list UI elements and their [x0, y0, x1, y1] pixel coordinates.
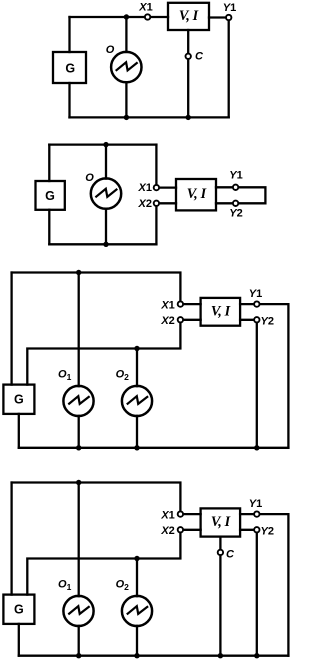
wire: O1 top lead circuit 3	[78, 273, 80, 387]
svg-text:G: G	[65, 61, 75, 75]
svg-text:G: G	[14, 603, 24, 617]
wire: top rail circuit 2	[49, 143, 156, 145]
terminal X2 circuit 3	[178, 317, 183, 322]
terminal X1 circuit 4	[178, 511, 183, 516]
svg-text:X1: X1	[138, 182, 152, 194]
wire: O1 top lead circuit 4	[78, 483, 80, 597]
terminal Y1 circuit 2	[233, 185, 238, 190]
junction: middle rail to O2 circuit 3	[134, 346, 139, 351]
junction: middle rail to O2 circuit 4	[134, 556, 139, 561]
svg-text:X2: X2	[160, 315, 174, 327]
svg-text:O1: O1	[58, 369, 72, 382]
wire: meter box to Y2 circuit 3	[240, 319, 257, 321]
oscillator O2 circle circuit 4	[122, 596, 152, 626]
svg-text:X1: X1	[160, 299, 174, 311]
wire: meter box C lead down circuit 1	[187, 30, 189, 117]
svg-text:X1: X1	[138, 2, 152, 14]
wire: X1 to meter box circuit 2	[156, 186, 176, 188]
svg-text:Y2: Y2	[261, 316, 274, 328]
wire: left side down to G circuit 4	[10, 483, 12, 595]
svg-text:V, I: V, I	[179, 8, 199, 24]
junction: top rail to O1 circuit 3	[76, 270, 81, 275]
terminal C circuit 4	[218, 550, 223, 555]
meter box U4 "V, I" circuit 4	[201, 508, 241, 536]
junction: top rail to O1 circuit 4	[76, 480, 81, 485]
terminal X2 circuit 2	[154, 201, 159, 206]
terminal Y1 circuit 1	[226, 15, 231, 20]
generator G box circuit 4	[3, 595, 34, 624]
junction: bottom rail to O1 circuit 4	[76, 653, 81, 658]
oscillator O sawtooth symbol circuit 1	[116, 62, 138, 71]
wire: generator G bottom lead circuit 1	[68, 83, 70, 117]
svg-text:O2: O2	[116, 369, 130, 382]
wire: generator G top lead circuit 1	[68, 17, 70, 52]
terminal X1 circuit 1	[145, 14, 150, 19]
svg-text:O: O	[85, 172, 94, 184]
wire: X1 to meter box circuit 3	[180, 303, 200, 305]
svg-text:C: C	[195, 51, 204, 63]
oscillator O circle circuit 1	[111, 52, 141, 82]
junction: top rail to O circuit 2	[103, 142, 108, 147]
wire: top rail and corner down to X1 circuit 4	[12, 483, 181, 515]
oscillator O sawtooth symbol circuit 2	[95, 189, 117, 198]
meter box U3 "V, I" circuit 3	[201, 298, 241, 326]
wire: top rail and corner down to X1 circuit 3	[12, 273, 181, 305]
wire: Y1 right and down to bottom rail circuit 3	[257, 304, 289, 448]
svg-text:O2: O2	[116, 579, 130, 592]
wire: meter box C lead down to bottom rail circuit 4	[219, 537, 221, 656]
wire: bottom rail circuit 2	[49, 243, 156, 245]
wire: O1 bottom lead circuit 3	[78, 416, 80, 448]
wire: oscillator O bottom lead circuit 1	[125, 82, 127, 117]
wire: bottom rail circuit 3	[19, 447, 289, 449]
wire: G bottom to bottom rail circuit 4	[18, 624, 20, 656]
junction: bottom rail to O circuit 2	[103, 242, 108, 247]
terminal Y2 circuit 4	[254, 527, 259, 532]
wire: left side down to G circuit 3	[10, 273, 12, 385]
terminal C circuit 1	[186, 54, 191, 59]
wire: O2 top lead circuit 3	[136, 349, 138, 387]
oscillator O circle circuit 2	[91, 178, 121, 208]
svg-text:Y2: Y2	[229, 208, 242, 220]
wire: meter box to Y1 circuit 3	[240, 303, 257, 305]
junction: bottom rail to Y2 circuit 3	[254, 445, 259, 450]
generator G box circuit 1	[53, 52, 86, 83]
svg-text:V, I: V, I	[211, 304, 231, 320]
oscillator O2 sawtooth symbol circuit 4	[127, 606, 148, 614]
wire: Y1 right and down to bottom rail circuit 4	[257, 514, 289, 656]
terminal Y1 circuit 3	[254, 301, 259, 306]
wire: bottom rail circuit 1	[70, 116, 229, 118]
junction: top rail to O circuit 1	[124, 14, 129, 19]
wire: G bottom to bottom rail circuit 2	[48, 210, 50, 245]
wire: oscillator O bottom lead circuit 2	[105, 209, 107, 245]
wire: top rail circuit 1	[70, 16, 148, 18]
svg-text:Y2: Y2	[261, 526, 274, 538]
wire: shorting loop Y1 to Y2 circuit 2	[236, 187, 266, 203]
terminal X1 circuit 3	[178, 301, 183, 306]
oscillator O1 sawtooth symbol circuit 3	[68, 396, 89, 404]
svg-text:G: G	[45, 189, 55, 203]
wire: left side down to G circuit 2	[48, 145, 50, 181]
svg-text:Y1: Y1	[223, 2, 236, 14]
wire: Y2 down to bottom rail circuit 3	[256, 320, 258, 448]
junction: bottom rail to O1 circuit 3	[76, 445, 81, 450]
svg-text:G: G	[14, 393, 24, 407]
oscillator O2 circle circuit 3	[122, 386, 152, 416]
wire: meter box to Y2 circuit 2	[216, 202, 236, 204]
wire: bottom rail circuit 4	[19, 655, 289, 657]
wire: O1 bottom lead circuit 4	[78, 626, 80, 656]
wire: X2 to meter box circuit 3	[180, 319, 200, 321]
junction: bottom rail to C lead circuit 1	[186, 115, 191, 120]
wire: meter box to Y1 circuit 4	[240, 513, 257, 515]
svg-text:X1: X1	[160, 509, 174, 521]
wire: middle rail from X2 to G top circuit 3	[27, 320, 180, 385]
generator G box circuit 3	[3, 385, 34, 414]
meter box U2 "V, I" circuit 2	[176, 179, 216, 210]
junction: bottom rail to O2 circuit 3	[134, 445, 139, 450]
junction: bottom rail to Y2 circuit 4	[254, 653, 259, 658]
junction: bottom rail to O2 circuit 4	[134, 653, 139, 658]
wire: O2 bottom lead circuit 3	[136, 416, 138, 448]
junction: bottom rail to C lead circuit 4	[218, 653, 223, 658]
terminal Y2 circuit 2	[233, 201, 238, 206]
wire: X2 down to bottom rail circuit 2	[155, 203, 157, 244]
terminal X1 circuit 2	[154, 185, 159, 190]
oscillator O1 circle circuit 4	[63, 596, 93, 626]
wire: meter box to Y1 circuit 2	[216, 186, 236, 188]
wire: X1 to meter box circuit 4	[180, 513, 200, 515]
terminal Y1 circuit 4	[254, 511, 259, 516]
svg-text:V, I: V, I	[187, 186, 207, 202]
svg-text:C: C	[226, 549, 235, 561]
wire: meter box to Y1 circuit 1	[209, 16, 229, 18]
oscillator O2 sawtooth symbol circuit 3	[127, 396, 148, 404]
svg-text:Y1: Y1	[249, 288, 262, 300]
terminal Y2 circuit 3	[254, 317, 259, 322]
wire: X1 to meter box circuit 1	[148, 16, 168, 18]
wire: O2 bottom lead circuit 4	[136, 626, 138, 656]
wire: oscillator O top lead circuit 2	[105, 145, 107, 179]
svg-text:O: O	[106, 44, 115, 56]
generator G box circuit 2	[36, 181, 65, 210]
svg-text:V, I: V, I	[211, 514, 231, 530]
svg-text:Y1: Y1	[229, 170, 242, 182]
wire: Y2 down to bottom rail circuit 4	[256, 530, 258, 656]
wire: oscillator O top lead circuit 1	[125, 17, 127, 52]
wire: G bottom to bottom rail circuit 3	[18, 414, 20, 448]
oscillator O1 circle circuit 3	[63, 386, 93, 416]
svg-text:X2: X2	[160, 525, 174, 537]
junction: bottom rail to O circuit 1	[124, 115, 129, 120]
oscillator O1 sawtooth symbol circuit 4	[68, 606, 89, 614]
wire: middle rail from X2 to G top circuit 4	[27, 530, 180, 595]
svg-text:Y1: Y1	[249, 498, 262, 510]
wire: X2 to meter box circuit 4	[180, 529, 200, 531]
wire: meter box to Y2 circuit 4	[240, 529, 257, 531]
meter box U1 "V, I" circuit 1	[168, 3, 209, 30]
svg-text:X2: X2	[138, 198, 152, 210]
wire: O2 top lead circuit 4	[136, 559, 138, 597]
svg-text:O1: O1	[58, 579, 72, 592]
terminal X2 circuit 4	[178, 527, 183, 532]
wire: X2 to meter box circuit 2	[156, 202, 176, 204]
wire: Y1 down to bottom rail circuit 1	[228, 18, 230, 118]
wire: right side top to X1 circuit 2	[155, 145, 157, 188]
